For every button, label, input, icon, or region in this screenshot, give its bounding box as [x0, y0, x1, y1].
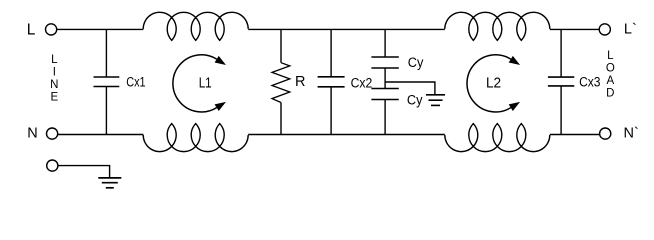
svg-text:N: N — [50, 79, 58, 91]
svg-text:D: D — [606, 88, 614, 100]
svg-text:N: N — [27, 125, 37, 141]
wire bottom rail L1 to L2 — [248, 134, 445, 136]
terminal N' — [600, 128, 611, 139]
svg-text:Cx1: Cx1 — [126, 74, 145, 89]
capacitor Cx2 — [330, 29, 332, 76]
ground (Cy midpoint) — [426, 95, 445, 106]
terminal N — [47, 128, 58, 139]
svg-text:Cy: Cy — [407, 92, 423, 107]
svg-text:Cx3: Cx3 — [579, 74, 600, 89]
svg-text:L: L — [607, 50, 614, 62]
svg-text:Cx2: Cx2 — [351, 75, 373, 90]
resistor R — [280, 29, 282, 62]
svg-text:I: I — [53, 67, 56, 79]
wire L2 to L' terminal — [550, 28, 599, 30]
terminal L — [46, 24, 57, 35]
capacitor Cx3 — [560, 29, 562, 77]
wire Cy midpoint to ground — [385, 82, 435, 95]
capacitor Cy upper — [384, 29, 386, 57]
terminal L' — [599, 24, 610, 35]
ground terminal — [47, 160, 58, 171]
inductor L1 bottom winding — [143, 124, 248, 152]
svg-text:Cy: Cy — [408, 55, 424, 70]
wire Cx1 lower lead to bottom rail — [105, 87, 107, 135]
capacitor Cx1 — [94, 77, 120, 87]
vertical label LOAD — [606, 50, 615, 100]
svg-text:E: E — [50, 92, 58, 104]
inductor L2 bottom winding — [445, 124, 550, 152]
wire Cx1 node to L1 upper winding handled above; junction at x=106.4 — [105, 29, 107, 77]
wire top rail L1 to L2 — [248, 28, 445, 30]
svg-text:L2: L2 — [486, 76, 501, 92]
inductor L1 top winding — [143, 12, 248, 40]
svg-text:R: R — [295, 74, 305, 90]
wire N terminal to L1 lower winding — [58, 134, 144, 136]
capacitor Cy lower — [371, 89, 398, 100]
svg-text:L: L — [51, 54, 58, 66]
inductor L2 top winding — [445, 12, 550, 40]
wire L terminal to Cx1 node — [57, 28, 144, 30]
svg-text:N`: N` — [624, 126, 639, 142]
svg-text:L`: L` — [624, 22, 637, 38]
winding direction arrow L2 — [467, 55, 520, 112]
wire Cy midpoint — [384, 68, 386, 89]
wire ground terminal to earth symbol — [58, 166, 110, 178]
svg-text:A: A — [606, 75, 614, 87]
svg-text:L: L — [27, 22, 36, 39]
svg-text:L1: L1 — [199, 76, 212, 92]
svg-text:O: O — [606, 63, 615, 75]
vertical label LINE — [50, 54, 58, 104]
winding direction arrow L1 — [173, 55, 226, 112]
earth ground symbol (chassis) — [98, 178, 121, 188]
wire L2 to N' terminal — [550, 134, 600, 136]
